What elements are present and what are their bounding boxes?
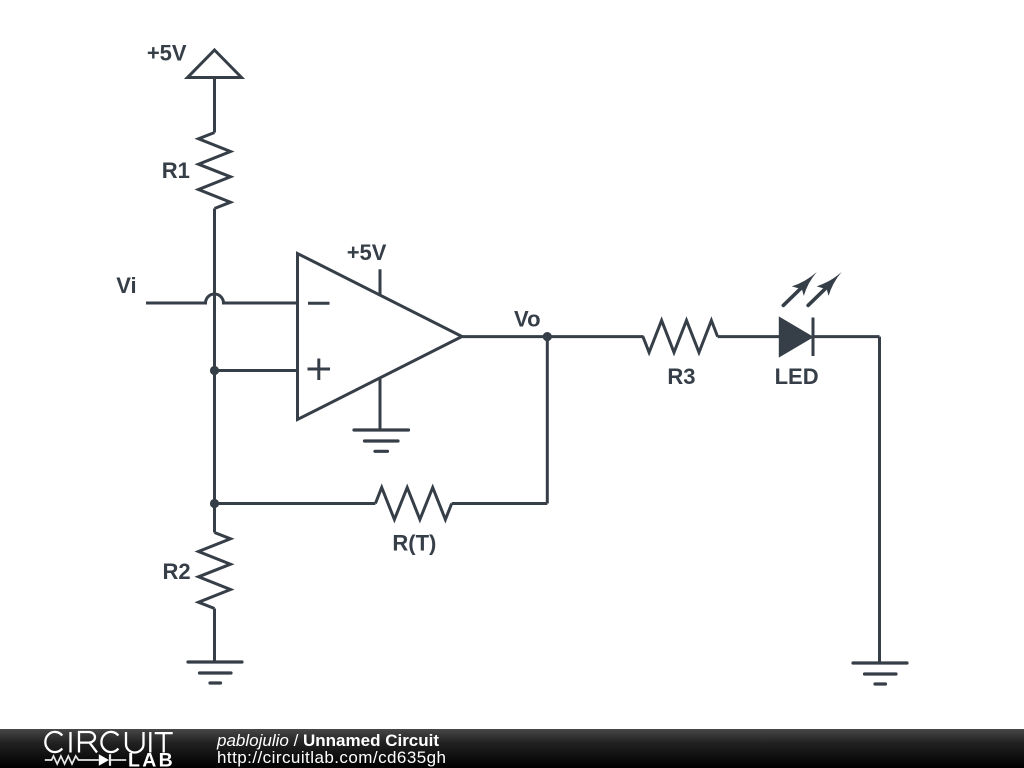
svg-text:LED: LED [775,364,819,389]
svg-text:R1: R1 [162,158,190,183]
svg-text:+5V: +5V [147,41,187,66]
svg-text:R3: R3 [667,364,695,389]
svg-text:+5V: +5V [347,240,387,265]
svg-text:R2: R2 [163,559,191,584]
svg-text:R(T): R(T) [392,531,436,556]
svg-text:Vi: Vi [116,273,136,298]
svg-text:Vo: Vo [514,307,540,332]
